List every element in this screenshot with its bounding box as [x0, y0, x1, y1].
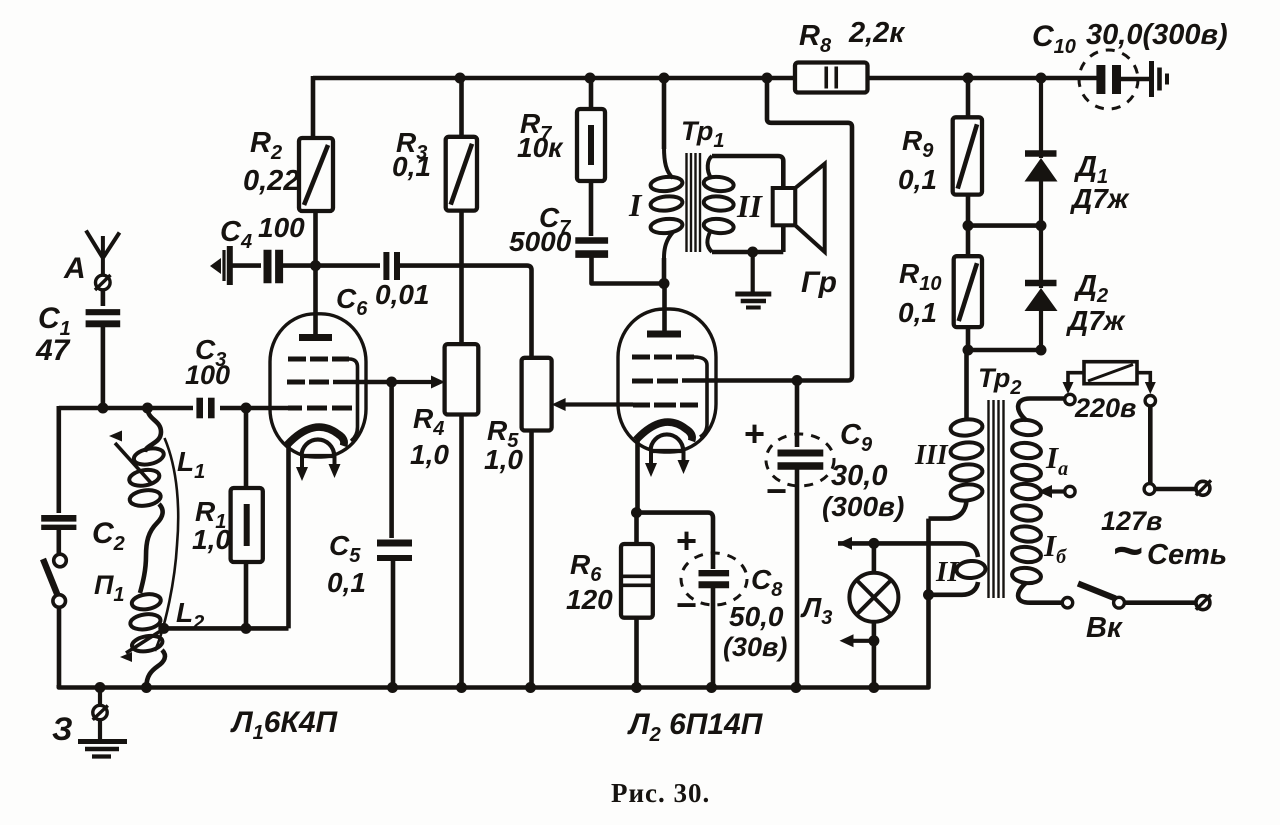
label C2: [92, 517, 125, 555]
resistor R3: [446, 137, 477, 211]
wire R2 to anode node: [313, 211, 318, 266]
svg-text:З: З: [52, 711, 73, 747]
node bus-R7: [585, 73, 596, 84]
wire Tr2 II top lead: [838, 543, 978, 557]
svg-text:II: II: [736, 188, 763, 224]
wire bus to R2: [311, 76, 316, 138]
svg-text:47: 47: [35, 334, 71, 367]
node screen L2 / C9: [792, 375, 803, 386]
svg-text:0,1: 0,1: [898, 297, 937, 328]
label C10 value: [1086, 19, 1228, 51]
label R9: [902, 125, 934, 162]
speaker Gr: [773, 164, 825, 252]
label R5: [487, 415, 519, 452]
label R3: [396, 127, 427, 164]
wire 127v down: [1148, 406, 1153, 484]
label D2: [1073, 270, 1108, 307]
label R8 value: [848, 17, 905, 49]
inductor L2: [129, 592, 163, 653]
label Tr2: [978, 363, 1021, 399]
wire anode stem L2: [662, 284, 667, 335]
node bus-D1: [1036, 73, 1047, 84]
resistor R4 (pot): [445, 344, 479, 414]
wire screen to C5: [389, 382, 394, 538]
svg-text:30,0(300в): 30,0(300в): [1086, 19, 1228, 51]
terminal 220v: [1065, 394, 1075, 404]
label Tr1: [681, 116, 724, 152]
svg-text:~: ~: [1113, 522, 1143, 580]
transformer Tr1 primary I: [650, 147, 683, 258]
label R8: [799, 20, 832, 57]
node C5-bus: [387, 682, 398, 693]
label C4 value: [258, 212, 305, 243]
label III winding: [914, 440, 949, 471]
tube L1 grid3: [288, 359, 358, 441]
transformer Tr2 winding II: [956, 560, 986, 579]
wire D2 to Tr2 III: [964, 350, 969, 419]
arrow R4 wiper: [392, 376, 445, 389]
label Vk: [1086, 612, 1123, 644]
svg-text:(300в): (300в): [822, 491, 904, 522]
wire cathode to C8: [637, 513, 714, 569]
arrow heater bottom: [840, 634, 874, 647]
transformer Tr2 core: [989, 400, 1004, 598]
label Ia: [1045, 440, 1068, 480]
capacitor C4: [268, 250, 280, 284]
label R1 value: [192, 524, 231, 555]
svg-text:A: A: [63, 252, 86, 285]
label Gr: [801, 266, 837, 299]
label C6: [336, 283, 368, 320]
wire lamp bottom: [872, 622, 877, 688]
arrow L2 adjust: [120, 630, 162, 662]
capacitor C5: [377, 543, 412, 558]
label R2 value: [243, 165, 299, 197]
switch P1: [43, 554, 66, 607]
wire bottom bus (chassis): [59, 519, 929, 688]
wire R1 top: [244, 408, 249, 488]
tilde mains: [1113, 522, 1143, 580]
svg-text:100: 100: [258, 212, 305, 243]
wire R3 to R4: [459, 211, 464, 345]
svg-text:+: +: [676, 520, 697, 561]
minus C8: [676, 584, 697, 625]
label L2: [176, 597, 204, 634]
label C4: [220, 216, 252, 253]
label R7: [520, 108, 552, 145]
node speaker gnd: [747, 247, 758, 258]
tube L2 grid1 (control): [633, 403, 698, 408]
svg-text:1,0: 1,0: [192, 524, 231, 555]
inductor L1: [128, 446, 165, 508]
wire Vk to plug: [1124, 600, 1195, 605]
wire bus to R9: [966, 78, 971, 117]
label C8: [751, 564, 783, 601]
label C7: [539, 202, 571, 239]
label R2: [250, 127, 282, 164]
arrow R5 wiper: [552, 398, 633, 411]
label D1: [1073, 151, 1108, 188]
arrow L1 adjust: [109, 431, 152, 485]
wire C1 to tank: [101, 324, 106, 408]
node lamp bottom arrow: [868, 635, 879, 646]
label R4: [413, 403, 444, 440]
node C3-R1-grid: [241, 403, 252, 414]
capacitor C8: [699, 573, 730, 585]
label A: [63, 252, 86, 285]
label C5 value: [327, 567, 366, 598]
wire tank left down: [56, 406, 61, 513]
capacitor C10: [1101, 65, 1117, 94]
capacitor C3: [200, 398, 212, 419]
resistor R10: [954, 256, 982, 327]
node R4-bus: [456, 682, 467, 693]
node C9-bus: [791, 682, 802, 693]
transformer Tr2 winding Ib: [1011, 504, 1041, 584]
svg-text:III: III: [914, 440, 949, 471]
node coil top: [142, 403, 153, 414]
label C9: [840, 419, 873, 456]
label D2 type: [1066, 305, 1126, 336]
terminal mains top: [1144, 484, 1155, 495]
svg-text:II: II: [935, 556, 960, 588]
capacitor C6: [386, 252, 397, 280]
wire tank top row right: [220, 406, 288, 411]
node C8-bus: [706, 682, 717, 693]
capacitor C9: [778, 453, 824, 466]
tube L1 anode: [299, 334, 332, 341]
svg-text:−: −: [676, 584, 697, 625]
wire R4 bottom: [459, 415, 464, 688]
svg-text:30,0: 30,0: [831, 460, 887, 492]
wire R9R10 to D1D2: [968, 223, 1041, 228]
minus C9: [766, 470, 787, 511]
wire anode stem L1: [313, 266, 318, 334]
svg-text:Гр: Гр: [801, 266, 837, 299]
wire antenna to C1: [101, 289, 106, 306]
svg-text:10к: 10к: [517, 132, 564, 163]
capacitor C1: [86, 312, 121, 324]
node bus-R3: [455, 73, 466, 84]
transformer Tr2 winding III: [950, 418, 983, 502]
wire R5 bottom: [529, 431, 534, 688]
wire jack to C4: [232, 263, 261, 268]
label D1 type: [1070, 183, 1130, 214]
label R5 value: [484, 444, 523, 475]
wire C9 top: [795, 381, 800, 448]
node bus-R9: [963, 73, 974, 84]
node R6-bus: [631, 682, 642, 693]
label R10: [899, 258, 941, 295]
wire R1 bottom: [244, 562, 249, 628]
label C5: [329, 530, 361, 567]
ground symbol (C10): [1152, 61, 1168, 97]
label C7 value: [509, 226, 572, 257]
wire coil mid link: [140, 504, 163, 593]
svg-text:1,0: 1,0: [410, 439, 449, 470]
node D1-D2: [1036, 220, 1047, 231]
plug pin bottom: [1196, 595, 1211, 610]
wire B+ top bus: [313, 76, 1097, 81]
wire tank top row: [59, 406, 193, 411]
label 220v: [1074, 393, 1136, 423]
svg-text:Рис. 30.: Рис. 30.: [611, 778, 710, 808]
svg-text:−: −: [766, 470, 787, 511]
connector jack (C4 input): [210, 246, 230, 285]
label R9 value: [898, 164, 937, 195]
label I: [628, 187, 643, 223]
wire C7 to anode node: [592, 251, 665, 284]
label 127v: [1101, 506, 1162, 536]
label C9 value2: [822, 491, 904, 522]
wire C4 to node: [280, 263, 316, 268]
svg-text:1,0: 1,0: [484, 444, 523, 475]
resistor R8: [795, 63, 868, 93]
label R4 value: [410, 439, 449, 470]
label L1 tube type: [230, 706, 339, 744]
wire node to C6: [316, 263, 381, 268]
wire R7 to C7: [589, 181, 594, 236]
node antenna-tank: [97, 403, 108, 414]
svg-text:I: I: [628, 187, 643, 223]
label R3 value: [392, 151, 431, 182]
svg-text:0,1: 0,1: [392, 151, 431, 182]
node lamp-bus: [868, 682, 879, 693]
tube L2 grid3: [632, 357, 707, 437]
label L1: [177, 446, 205, 483]
wire switch to bus: [57, 608, 62, 688]
wire coil entry: [145, 408, 161, 452]
terminal 127v: [1145, 396, 1155, 406]
svg-text:Д7ж: Д7ж: [1066, 305, 1126, 336]
node Tr1-C7-anode: [659, 278, 670, 289]
node R5-bus: [525, 682, 536, 693]
tube L1 grid2 (screen): [287, 380, 392, 385]
wire R6 top: [634, 513, 639, 544]
svg-text:0,1: 0,1: [898, 164, 937, 195]
caption: [611, 778, 710, 808]
switch Vk: [1062, 584, 1124, 609]
label Ib: [1043, 528, 1067, 568]
node R10-Tr2: [963, 345, 974, 356]
wire Ib bottom lead: [1018, 583, 1062, 603]
antenna A: [86, 231, 120, 293]
wire L2 tap row: [164, 626, 289, 631]
tube L2 cathode: [636, 422, 692, 441]
wire coil exit: [146, 650, 165, 687]
wire C2 to switch: [56, 528, 61, 554]
node L2 tap: [158, 623, 169, 634]
svg-text:0,1: 0,1: [327, 567, 366, 598]
svg-text:Д7ж: Д7ж: [1070, 183, 1130, 214]
lamp L3: [849, 573, 898, 622]
plus C8: [676, 520, 697, 561]
resistor R6: [621, 544, 653, 618]
wire Tr2 III bottom: [929, 499, 967, 519]
node screen L1: [386, 377, 397, 388]
wire bus to R7: [589, 78, 594, 109]
svg-text:50,0: 50,0: [729, 601, 784, 632]
transformer Tr2 winding Ia: [1011, 419, 1041, 501]
wire C10 to ground: [1120, 77, 1149, 82]
diode D1: [1025, 78, 1058, 226]
label L3: [800, 592, 832, 629]
wire C9 bottom: [795, 466, 800, 688]
resistor R1: [231, 488, 263, 562]
tube L2 heater: [645, 434, 690, 477]
svg-text:Сеть: Сеть: [1147, 539, 1227, 571]
node gnd stem: [95, 682, 106, 693]
tube L1 grid1 (control): [288, 406, 352, 411]
diode D2: [1025, 226, 1058, 350]
wire Tr2 II bottom lead: [929, 582, 979, 595]
tube L1 envelope: [270, 314, 366, 457]
node bus-screen-drop: [762, 73, 773, 84]
svg-text:120: 120: [566, 584, 613, 615]
node R9-R10: [963, 220, 974, 231]
node D2 bottom: [1036, 345, 1047, 356]
label C1 value: [35, 334, 71, 367]
dashed circle C9: [766, 434, 834, 486]
wire Tr1 sec bottom: [712, 225, 783, 252]
svg-text:100: 100: [185, 360, 230, 390]
wire cathode L1: [286, 442, 291, 628]
plug pin top: [1196, 480, 1211, 495]
wire C8 bottom: [711, 585, 716, 688]
label C1: [38, 302, 71, 340]
wire Tr1 primary bottom: [662, 258, 667, 284]
wire Ia top lead: [1018, 399, 1064, 421]
svg-text:Вк: Вк: [1086, 612, 1123, 644]
wire R9 to R10: [966, 195, 971, 257]
tube L1 cathode: [287, 427, 344, 446]
svg-text:(30в): (30в): [723, 632, 787, 662]
svg-text:5000: 5000: [509, 226, 572, 257]
arrow heater top: [838, 537, 852, 550]
tube L2 envelope: [618, 309, 716, 452]
label R7 value: [517, 132, 564, 163]
node lamp top: [868, 538, 879, 549]
wire mains top: [1155, 487, 1195, 492]
wire C5 bottom: [391, 558, 396, 688]
label C10: [1032, 20, 1076, 58]
label C9 value: [831, 460, 887, 492]
node R1-cathode row: [241, 623, 252, 634]
capacitor C7: [575, 241, 608, 255]
svg-text:+: +: [744, 413, 765, 454]
resistor R9: [953, 117, 982, 194]
node coil bottom: [141, 682, 152, 693]
svg-text:0,22: 0,22: [243, 165, 299, 197]
label Set: [1147, 539, 1227, 571]
ground symbol (speaker): [735, 252, 771, 308]
label R10 value: [898, 297, 937, 328]
wire R6 bottom: [634, 618, 639, 688]
tube L1 heater: [296, 439, 341, 481]
label З: [52, 711, 73, 747]
svg-text:Л16К4П: Л16К4П: [230, 706, 339, 744]
tap Ia-Ib: [1038, 485, 1075, 498]
label P1: [94, 570, 125, 606]
node anode L1 (C4/C6): [310, 260, 321, 271]
wire lamp top: [872, 543, 877, 572]
node bus-Tr1: [659, 73, 670, 84]
label C8 value: [729, 601, 784, 632]
label R6: [570, 549, 602, 586]
coupling arc L1-L2: [155, 438, 178, 651]
transformer Tr1 secondary II: [703, 156, 734, 252]
wire R10 bottom: [966, 327, 971, 350]
label C3: [195, 334, 226, 371]
label II: [736, 188, 763, 224]
label C6 value: [375, 279, 430, 310]
wire bus to Tr1 primary: [662, 78, 667, 149]
label C3 value: [185, 360, 230, 390]
fuse: [1063, 362, 1156, 394]
wire bottom diode row: [968, 348, 1041, 353]
plus C9: [744, 413, 765, 454]
svg-text:0,01: 0,01: [375, 279, 430, 310]
wire Tr1 sec top: [712, 156, 783, 188]
svg-text:2,2к: 2,2к: [848, 17, 905, 49]
tube L2 grid2 (screen): [632, 378, 797, 384]
tube L2 anode: [647, 331, 681, 338]
wire screen drop: [767, 78, 852, 381]
node Tr2 II chassis: [923, 589, 934, 600]
label C8 value2: [723, 632, 787, 662]
capacitor C2: [41, 518, 76, 527]
resistor R2: [299, 138, 333, 211]
wire bus to R3: [459, 78, 464, 137]
label R1: [195, 496, 226, 533]
svg-text:Л2 6П14П: Л2 6П14П: [627, 708, 764, 746]
resistor R7: [577, 109, 605, 181]
node cathode L2: [631, 507, 642, 518]
transformer Tr1 core: [687, 153, 701, 252]
wire cathode L2: [635, 441, 640, 513]
resistor R5 (pot): [522, 358, 552, 431]
svg-text:220в: 220в: [1074, 393, 1136, 423]
label L2 tube type: [627, 708, 764, 746]
wire C6 to R5 top: [398, 266, 532, 358]
label R6 value: [566, 584, 613, 615]
label II winding: [935, 556, 960, 588]
ground symbol (chassis З): [78, 687, 127, 757]
dashed circle C10: [1079, 50, 1138, 109]
dashed circle C8: [681, 553, 747, 605]
